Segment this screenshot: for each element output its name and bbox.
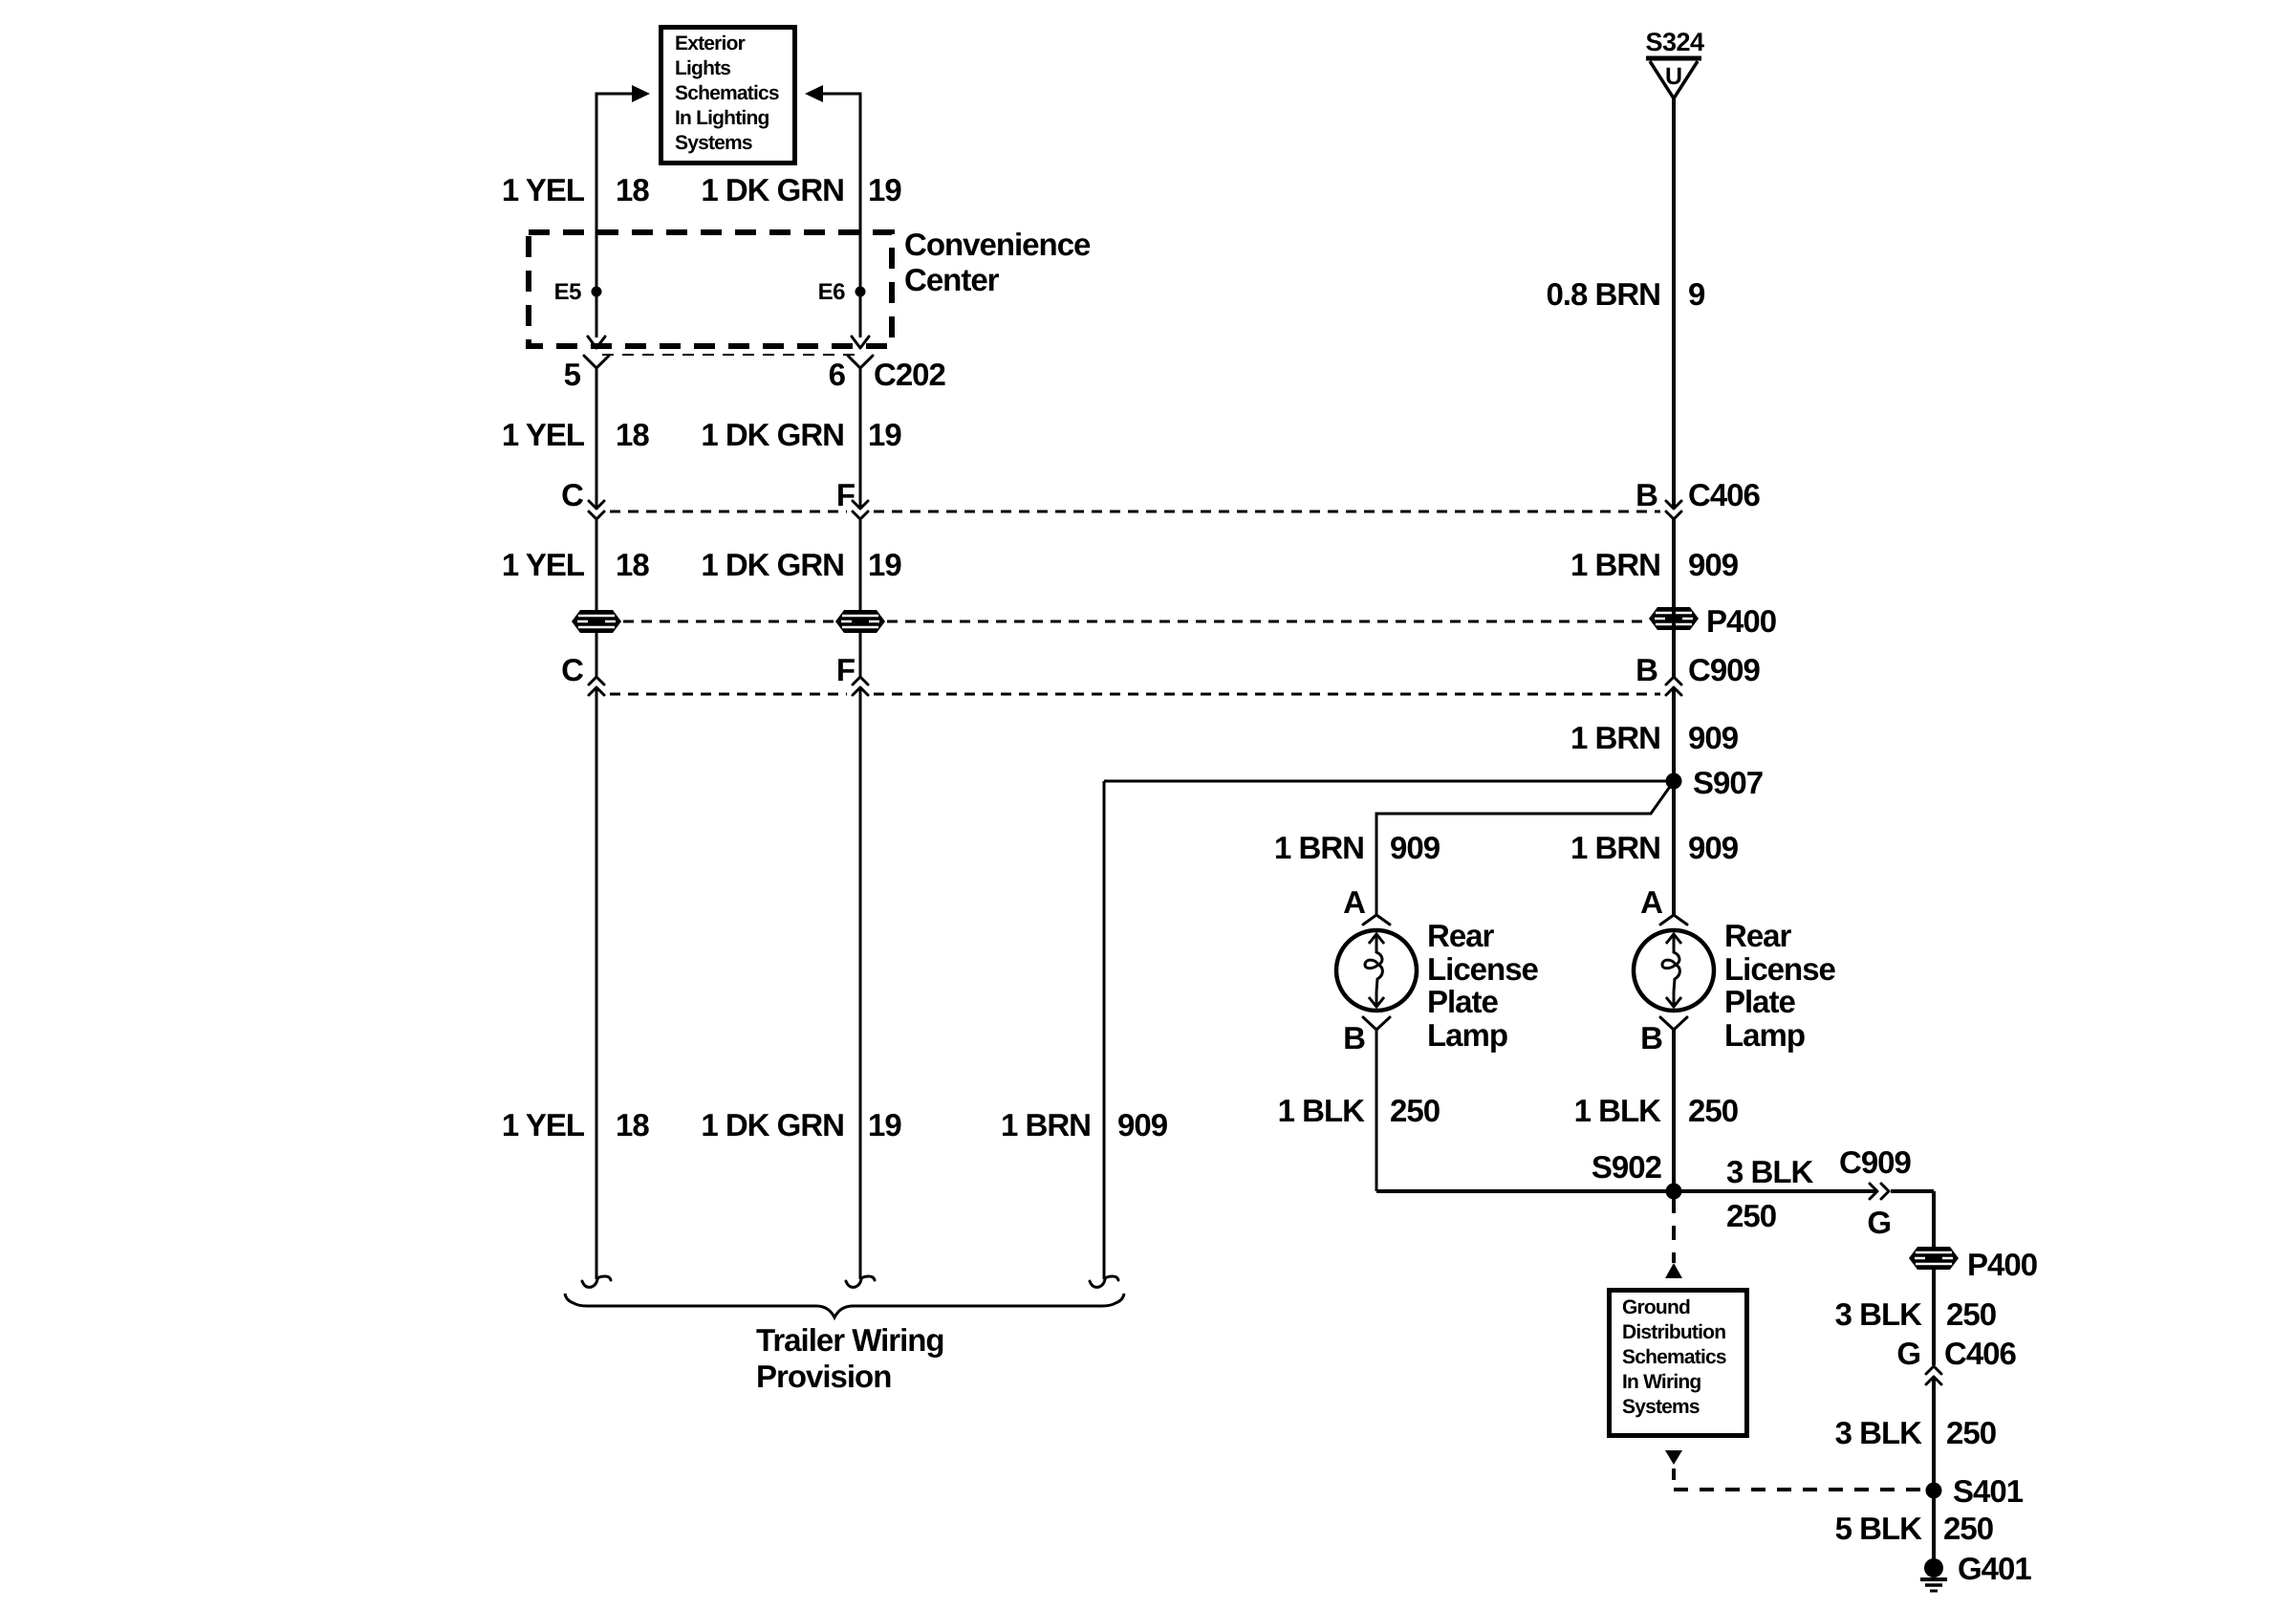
svg-text:Schematics: Schematics: [1622, 1346, 1726, 1368]
connector C202 pin 5 socket: [584, 356, 609, 368]
svg-text:6: 6: [829, 357, 846, 392]
svg-text:1 BLK: 1 BLK: [1574, 1093, 1662, 1128]
pin A chevron (left lamp): [1363, 915, 1390, 925]
svg-text:1 DK GRN: 1 DK GRN: [701, 547, 844, 582]
wire DK GRN 19 segment C202 to C406: [859, 368, 862, 508]
svg-text:1 YEL: 1 YEL: [502, 417, 585, 452]
wire DK GRN 19 top segment into reference box: [822, 94, 860, 337]
svg-text:In Wiring: In Wiring: [1622, 1371, 1700, 1393]
svg-text:909: 909: [1688, 547, 1739, 582]
svg-text:909: 909: [1688, 830, 1739, 865]
pin A chevron (right lamp): [1660, 915, 1687, 925]
svg-text:909: 909: [1688, 720, 1739, 755]
wire from S907 to left lamp (diagonal + horizontal): [1376, 784, 1672, 915]
svg-text:19: 19: [868, 547, 901, 582]
svg-text:Distribution: Distribution: [1622, 1321, 1725, 1343]
svg-text:250: 250: [1946, 1296, 1996, 1332]
svg-text:1 BLK: 1 BLK: [1278, 1093, 1366, 1128]
svg-text:1 BRN: 1 BRN: [1570, 830, 1660, 865]
svg-text:1 YEL: 1 YEL: [502, 1107, 585, 1142]
splice S907 node: [1666, 773, 1682, 790]
svg-text:5: 5: [564, 357, 581, 392]
connector C202 plane (thin dashed): [602, 354, 858, 356]
svg-text:19: 19: [868, 417, 901, 452]
connector C406 chevrons (BRN wire): [1666, 501, 1681, 509]
wire 1 BRN 909 segment C909 to S907: [1672, 687, 1676, 915]
svg-text:License: License: [1724, 951, 1836, 987]
svg-text:Rear: Rear: [1427, 918, 1495, 953]
wire BRN 909 hook end: [1090, 1276, 1118, 1287]
grommet P400 on BRN wire: [1649, 607, 1699, 630]
wire 1 BLK 250 (left lamp to S902): [1375, 1030, 1378, 1191]
grommet P400 on YEL wire: [572, 610, 621, 633]
dashed link S902 to ground distribution box: [1672, 1199, 1676, 1263]
wire 0.8 BRN 9 from S324 to C406: [1672, 98, 1676, 508]
svg-text:S401: S401: [1953, 1473, 2024, 1509]
splice S401 node: [1926, 1483, 1942, 1499]
svg-text:250: 250: [1946, 1415, 1996, 1450]
lamp bulb symbol (right Rear License Plate Lamp): [1634, 930, 1714, 1011]
svg-text:E6: E6: [818, 279, 846, 305]
svg-text:Trailer Wiring: Trailer Wiring: [756, 1322, 944, 1358]
connector C406 chevrons (DK GRN wire): [853, 501, 868, 509]
svg-text:Lamp: Lamp: [1724, 1017, 1805, 1053]
connector C909 right chevrons (>>): [1870, 1184, 1877, 1199]
svg-text:909: 909: [1390, 830, 1440, 865]
connector C909 chevrons (DK GRN wire): [853, 677, 868, 685]
wire YEL 18 segment C202 to C406: [596, 368, 598, 508]
pin B socket Y (left lamp): [1363, 1017, 1390, 1030]
wire 5 BLK 250 segment S401 to G401: [1932, 1490, 1936, 1560]
svg-text:Lights: Lights: [675, 57, 730, 79]
svg-text:250: 250: [1688, 1093, 1738, 1128]
lamp bulb symbol (left Rear License Plate Lamp): [1336, 930, 1417, 1011]
svg-text:5 BLK: 5 BLK: [1835, 1511, 1923, 1546]
svg-text:1 DK GRN: 1 DK GRN: [701, 417, 844, 452]
svg-text:G: G: [1867, 1205, 1891, 1240]
wire YEL 18 segment C406 to C909: [596, 519, 598, 677]
svg-text:S907: S907: [1693, 765, 1763, 800]
svg-text:P400: P400: [1967, 1247, 2037, 1282]
svg-text:A: A: [1640, 884, 1662, 920]
svg-text:19: 19: [868, 1107, 901, 1142]
svg-text:U: U: [1665, 63, 1682, 90]
svg-text:1 BRN: 1 BRN: [1570, 547, 1660, 582]
svg-text:250: 250: [1390, 1093, 1440, 1128]
svg-text:Provision: Provision: [756, 1359, 891, 1394]
connector C406 chevrons (YEL wire): [589, 501, 604, 509]
svg-text:Exterior: Exterior: [675, 33, 746, 54]
svg-text:18: 18: [616, 417, 649, 452]
svg-text:1 YEL: 1 YEL: [502, 172, 585, 207]
connector C406 chevrons (ground wire): [1926, 1366, 1941, 1374]
arrowhead at convenience center bottom edge (left wire): [588, 337, 605, 348]
svg-text:C406: C406: [1688, 477, 1761, 512]
svg-text:19: 19: [868, 172, 901, 207]
wire BRN 909 trailer branch: corner from S907: [1103, 781, 1106, 1279]
wire YEL 18 segment C909 to trailer end: [596, 687, 598, 1279]
svg-text:Systems: Systems: [1622, 1396, 1700, 1418]
ground G401 symbol: [1920, 1551, 2031, 1591]
svg-text:909: 909: [1117, 1107, 1168, 1142]
grommet P400 (ground wire): [1909, 1247, 1959, 1270]
svg-text:S324: S324: [1645, 28, 1704, 56]
svg-text:1 YEL: 1 YEL: [502, 547, 585, 582]
wire 1 BLK 250 (right lamp to S902): [1672, 1030, 1676, 1191]
svg-text:G: G: [1896, 1336, 1920, 1371]
svg-text:B: B: [1640, 1020, 1662, 1055]
reference box: Exterior Lights Schematics In Lighting Systems: [661, 28, 795, 163]
connector C909 chevrons (BRN wire): [1666, 677, 1681, 685]
svg-text:B: B: [1343, 1020, 1365, 1055]
wire DK GRN 19 hook end: [846, 1276, 875, 1287]
wire 3 BLK 250 segment C406 to S401: [1932, 1377, 1936, 1490]
node E6: [856, 287, 866, 297]
svg-text:3 BLK: 3 BLK: [1835, 1415, 1923, 1450]
right lamp name label: [1724, 918, 1836, 1053]
connector C406 plane (dashed): [610, 511, 847, 513]
svg-text:0.8 BRN: 0.8 BRN: [1546, 276, 1660, 312]
svg-text:E5: E5: [554, 279, 582, 305]
svg-text:Schematics: Schematics: [675, 82, 779, 104]
grommet P400 plane (dashed): [623, 620, 834, 623]
svg-text:S902: S902: [1592, 1149, 1662, 1185]
svg-text:Convenience: Convenience: [904, 227, 1091, 262]
svg-text:B: B: [1635, 477, 1657, 512]
svg-text:Plate: Plate: [1427, 984, 1499, 1019]
svg-text:P400: P400: [1706, 603, 1776, 639]
arrowhead into box (right): [805, 85, 823, 102]
connector C909 plane (dashed): [610, 693, 847, 696]
svg-text:C406: C406: [1944, 1336, 2017, 1371]
svg-text:3 BLK: 3 BLK: [1726, 1154, 1814, 1189]
svg-text:C909: C909: [1839, 1144, 1912, 1180]
svg-text:9: 9: [1688, 276, 1705, 312]
wire YEL 18 top segment into reference box: [596, 94, 634, 337]
svg-text:C: C: [561, 652, 583, 687]
svg-text:1 BRN: 1 BRN: [1001, 1107, 1091, 1142]
svg-text:1 DK GRN: 1 DK GRN: [701, 1107, 844, 1142]
wire 3 BLK 250 ground bus (S902 horizontal): [1376, 1189, 1875, 1193]
wire YEL 18 hook end: [582, 1276, 611, 1287]
svg-text:1 DK GRN: 1 DK GRN: [701, 172, 844, 207]
grommet P400 on DK GRN wire: [835, 610, 885, 633]
svg-text:A: A: [1343, 884, 1365, 920]
svg-text:G401: G401: [1958, 1551, 2031, 1586]
svg-text:In Lighting: In Lighting: [675, 107, 769, 129]
svg-text:1 BRN: 1 BRN: [1570, 720, 1660, 755]
arrowhead into box (left): [632, 85, 650, 102]
svg-text:C909: C909: [1688, 652, 1761, 687]
arrowhead at convenience center bottom edge (right wire): [852, 337, 869, 348]
pin B socket Y (right lamp): [1660, 1017, 1687, 1030]
connector C202 pin 6 socket: [848, 356, 873, 368]
svg-text:18: 18: [616, 547, 649, 582]
svg-text:F: F: [836, 477, 855, 512]
Convenience Center dashed box: [529, 232, 892, 346]
svg-text:C202: C202: [874, 357, 946, 392]
wire from S907 to trailer branch: [1104, 780, 1674, 783]
wire 3 BLK down from corner through P400: [1932, 1191, 1936, 1365]
svg-text:18: 18: [616, 1107, 649, 1142]
svg-text:Ground: Ground: [1622, 1296, 1690, 1318]
svg-text:Center: Center: [904, 262, 1000, 297]
connector C909 chevrons (YEL wire): [589, 677, 604, 685]
wire 1 BRN 909 segment C406 to C909: [1672, 519, 1676, 677]
svg-text:18: 18: [616, 172, 649, 207]
svg-text:250: 250: [1943, 1511, 1993, 1546]
svg-text:Rear: Rear: [1724, 918, 1792, 953]
svg-text:Systems: Systems: [675, 132, 752, 154]
left lamp name label: [1427, 918, 1539, 1053]
svg-text:250: 250: [1726, 1198, 1776, 1233]
wire DK GRN 19 segment C406 to C909: [859, 519, 862, 677]
reference box: Ground Distribution Schematics In Wiring Systems: [1610, 1291, 1747, 1436]
svg-text:3 BLK: 3 BLK: [1835, 1296, 1923, 1332]
svg-text:License: License: [1427, 951, 1539, 987]
svg-text:F: F: [836, 652, 855, 687]
svg-text:B: B: [1635, 652, 1657, 687]
svg-text:Plate: Plate: [1724, 984, 1796, 1019]
svg-text:Lamp: Lamp: [1427, 1017, 1507, 1053]
trailer wiring provision brace: [565, 1294, 1124, 1317]
svg-text:C: C: [561, 477, 583, 512]
wire DK GRN 19 segment C909 to trailer end: [859, 687, 862, 1279]
dashed link ground box to S401: [1665, 1450, 1682, 1465]
svg-text:1 BRN: 1 BRN: [1274, 830, 1364, 865]
splice S902 node: [1666, 1184, 1682, 1200]
node E5: [592, 287, 602, 297]
splice S324 symbol (triangle with U): [1645, 28, 1704, 98]
